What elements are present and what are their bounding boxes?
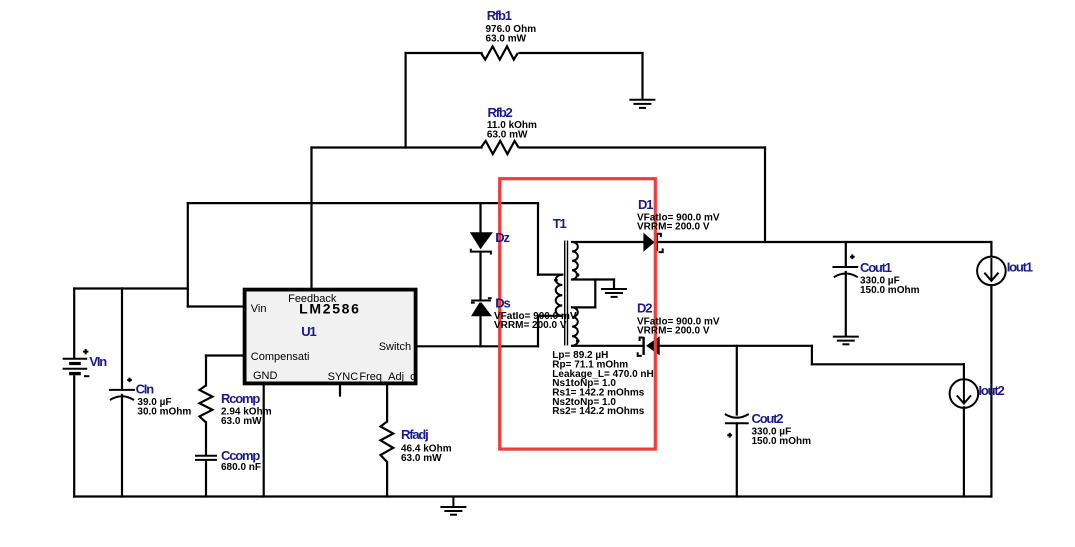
current source Iout1: [977, 257, 1006, 286]
diode Ds labels: [494, 296, 577, 331]
wire: [990, 285, 992, 496]
wire: [74, 287, 188, 289]
svg-text:63.0 mW: 63.0 mW: [401, 453, 442, 464]
svg-text:Rfadj: Rfadj: [401, 427, 428, 442]
svg-text:63.0 mW: 63.0 mW: [487, 130, 528, 141]
wire: [657, 241, 991, 243]
svg-text:GND: GND: [253, 370, 278, 382]
resistor Rfb2: [481, 141, 519, 154]
svg-text:Dz: Dz: [495, 230, 510, 245]
wire: [537, 203, 539, 275]
ground center tap: [601, 289, 627, 297]
transformer T1 core: [565, 241, 568, 346]
transformer T1 secondary winding 1: [572, 242, 578, 280]
svg-text:150.0 mOhm: 150.0 mOhm: [752, 436, 812, 447]
transformer T1 labels: [552, 216, 653, 417]
diode Ds schottky: [471, 298, 492, 316]
svg-text:Ds: Ds: [495, 296, 510, 311]
svg-text:Iout2: Iout2: [979, 383, 1005, 398]
wire: [205, 461, 207, 497]
svg-text:680.0 nF: 680.0 nF: [221, 462, 261, 473]
svg-text:Vin: Vin: [251, 303, 267, 315]
wire: [386, 385, 388, 422]
svg-text:150.0 mOhm: 150.0 mOhm: [860, 285, 920, 296]
wire: [263, 385, 265, 497]
wire: [205, 356, 207, 386]
transformer T1 polarity dot secondary 2: [576, 339, 580, 343]
resistor Rcomp labels: [221, 391, 272, 427]
svg-text:63.0 mW: 63.0 mW: [486, 33, 527, 44]
wire: [764, 148, 766, 243]
svg-text:Rfb1: Rfb1: [487, 8, 512, 23]
svg-text:Ccomp: Ccomp: [221, 448, 260, 463]
svg-text:Switch: Switch: [379, 341, 411, 353]
capacitor Ccomp: [195, 456, 217, 460]
wire: [572, 306, 595, 308]
wire: [845, 272, 847, 336]
wire: [963, 364, 965, 380]
wire: [736, 346, 738, 415]
voltage source Vin: [63, 349, 90, 376]
wire: [572, 345, 644, 347]
node highlight red rectangle: [500, 179, 656, 449]
wire: [417, 345, 538, 347]
wire: [386, 462, 388, 497]
wire: [845, 242, 847, 266]
wire: [990, 242, 992, 256]
transformer T1 primary winding: [556, 275, 563, 316]
ground: [833, 337, 859, 345]
wire: [963, 407, 965, 496]
resistor Rfadj labels: [401, 427, 452, 464]
wire: [73, 289, 75, 358]
wire: [479, 253, 481, 300]
ground: [440, 497, 466, 515]
svg-text:Compensati: Compensati: [251, 351, 310, 363]
wire: [121, 395, 123, 497]
capacitor Cin: [109, 378, 135, 400]
svg-text:Rs2= 142.2 mOhms: Rs2= 142.2 mOhms: [552, 406, 644, 417]
IC U1 LM2586: [245, 290, 416, 384]
wire: [310, 148, 312, 288]
wire: [206, 354, 244, 356]
wire: [736, 423, 738, 496]
wire: [74, 495, 991, 497]
wire: [537, 316, 539, 347]
svg-text:Cout1: Cout1: [860, 260, 892, 275]
wire: [811, 346, 813, 365]
wire: [538, 274, 562, 276]
resistor Rcomp: [200, 385, 213, 422]
current source Iout2: [950, 379, 979, 408]
svg-text:Iout1: Iout1: [1007, 260, 1033, 275]
capacitor Cout1: [833, 254, 859, 277]
resistor Rfb2 labels: [487, 105, 537, 141]
svg-text:Rfb2: Rfb2: [488, 105, 513, 120]
capacitor Cout2 labels: [752, 411, 812, 447]
resistor Rfadj: [381, 422, 394, 463]
wire: [205, 422, 207, 455]
svg-text:Rcomp: Rcomp: [221, 391, 260, 406]
svg-text:VRRM= 200.0 V: VRRM= 200.0 V: [637, 221, 710, 232]
wire: [520, 52, 643, 54]
wire: [339, 385, 341, 396]
wire: [538, 315, 562, 317]
svg-text:Cout2: Cout2: [752, 411, 784, 426]
wire: [406, 52, 482, 54]
capacitor Cout1 labels: [860, 260, 920, 296]
svg-text:63.0 mW: 63.0 mW: [221, 416, 262, 427]
capacitor Cout2: [725, 414, 749, 438]
wire: [520, 146, 766, 148]
wire: [613, 280, 615, 289]
svg-text:LM2586: LM2586: [299, 301, 361, 317]
svg-text:Freq_Adj_c: Freq_Adj_c: [359, 371, 416, 383]
wire: [572, 241, 643, 243]
wire: [479, 316, 481, 346]
wire: [812, 363, 964, 365]
transformer T1 polarity dot primary: [554, 278, 558, 282]
svg-text:VRRM= 200.0 V: VRRM= 200.0 V: [494, 320, 567, 331]
wire: [641, 53, 643, 99]
diode Dz zener: [470, 232, 493, 254]
op-amp U1 labels: [251, 293, 416, 383]
diode D1 labels: [637, 197, 720, 232]
svg-text:VIn: VIn: [89, 354, 107, 369]
wire: [188, 202, 538, 204]
wire: [572, 278, 614, 280]
wire: [479, 203, 481, 232]
svg-text:D2: D2: [637, 301, 652, 316]
resistor Rfb1 labels: [486, 8, 537, 44]
diode D1: [643, 233, 662, 253]
svg-text:U1: U1: [301, 324, 316, 339]
svg-text:30.0 mOhm: 30.0 mOhm: [137, 407, 191, 418]
wire: [73, 377, 75, 497]
svg-text:T1: T1: [553, 216, 567, 231]
wire: [188, 305, 244, 307]
capacitor Cin labels: [136, 381, 192, 417]
diode D2: [638, 336, 660, 356]
wire: [312, 146, 482, 148]
diode D2 labels: [637, 301, 720, 337]
wire: [660, 345, 812, 347]
resistor Rfb1: [481, 46, 518, 59]
transformer T1 secondary winding 2: [572, 307, 578, 345]
svg-text:SYNC: SYNC: [328, 371, 359, 383]
transformer T1 polarity dot secondary 1: [576, 273, 580, 277]
wire: [594, 280, 596, 308]
svg-text:CIn: CIn: [136, 381, 155, 396]
wire: [405, 53, 407, 148]
wire: [121, 289, 123, 390]
svg-text:VRRM= 200.0 V: VRRM= 200.0 V: [637, 326, 710, 337]
svg-text:D1: D1: [638, 197, 653, 212]
wire: [187, 203, 189, 306]
capacitor Ccomp labels: [221, 448, 261, 473]
ground: [629, 100, 655, 108]
